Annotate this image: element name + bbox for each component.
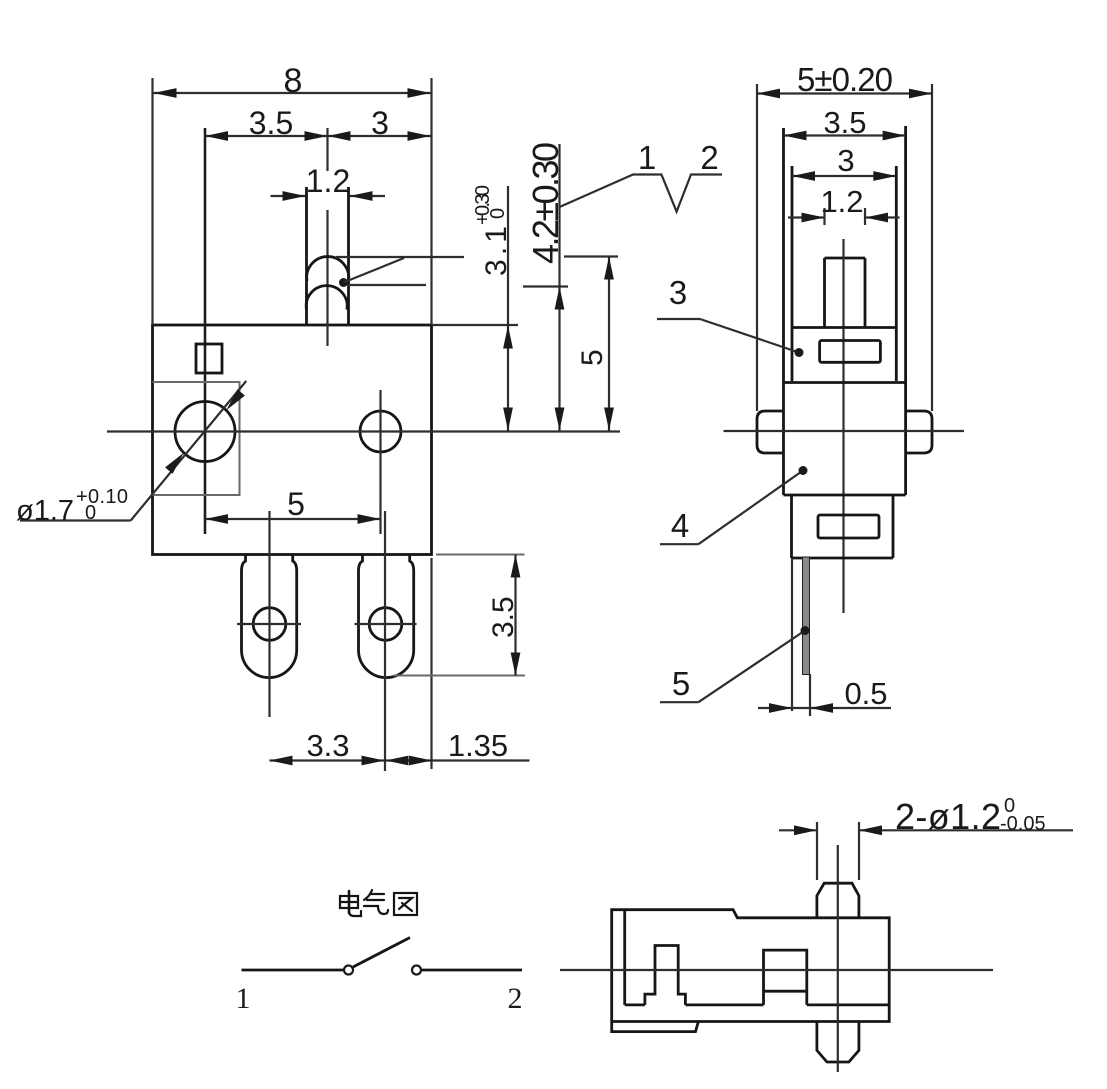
svg-text:5: 5: [576, 349, 609, 366]
svg-text:2-ø1.2: 2-ø1.2: [895, 796, 1001, 837]
svg-text:1.2: 1.2: [820, 184, 863, 219]
svg-text:3.5: 3.5: [487, 596, 520, 638]
svg-text:2: 2: [508, 982, 523, 1015]
svg-text:0.5: 0.5: [844, 676, 887, 711]
svg-text:3.3: 3.3: [306, 728, 349, 763]
svg-text:4: 4: [671, 507, 689, 544]
svg-text:1: 1: [638, 139, 656, 176]
svg-text:4.2±0.30: 4.2±0.30: [525, 142, 566, 264]
svg-text:8: 8: [284, 62, 303, 100]
svg-text:5±0.20: 5±0.20: [797, 61, 893, 98]
svg-text:0: 0: [487, 208, 509, 219]
svg-text:1: 1: [236, 982, 251, 1015]
svg-text:1.35: 1.35: [448, 728, 508, 763]
svg-text:3: 3: [371, 105, 389, 141]
svg-text:5: 5: [287, 486, 305, 522]
svg-text:-0.05: -0.05: [1000, 813, 1046, 835]
svg-text:3: 3: [837, 143, 854, 178]
svg-text:3.5: 3.5: [249, 105, 293, 141]
svg-text:+0.10: +0.10: [76, 486, 128, 508]
svg-text:3.1: 3.1: [480, 226, 513, 276]
svg-text:0: 0: [85, 502, 96, 524]
svg-text:5: 5: [672, 665, 690, 702]
svg-text:1.2: 1.2: [306, 163, 350, 199]
svg-text:2: 2: [700, 139, 718, 176]
svg-text:3: 3: [669, 274, 687, 311]
svg-text:ø1.7: ø1.7: [16, 495, 74, 527]
svg-text:3.5: 3.5: [823, 105, 866, 140]
